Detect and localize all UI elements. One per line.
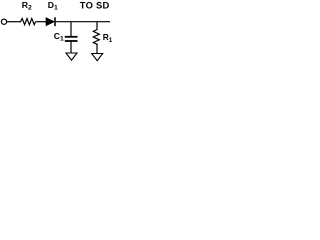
diode D1 anode triangle bbox=[46, 18, 54, 26]
resistor R1 bbox=[93, 30, 99, 45]
diode D1 cathode bar bbox=[54, 17, 56, 26]
terminal (input pin) bbox=[1, 19, 6, 24]
capacitor C1 top plate bbox=[65, 36, 78, 38]
wire C1 to ground bbox=[70, 42, 72, 54]
wire node to R1 bbox=[96, 22, 98, 30]
wire R1 to ground bbox=[96, 45, 98, 54]
ground under C1 bbox=[66, 53, 77, 60]
resistor R2 bbox=[21, 19, 36, 25]
capacitor C1 bottom plate bbox=[65, 40, 78, 42]
svg-text:C1: C1 bbox=[54, 31, 64, 43]
svg-text:R2: R2 bbox=[22, 0, 32, 12]
wire node to C1 bbox=[70, 22, 72, 37]
svg-text:D1: D1 bbox=[48, 0, 58, 12]
wire terminal to R2 bbox=[7, 21, 21, 23]
wire R2 to D1 bbox=[36, 21, 47, 23]
svg-text:R1: R1 bbox=[103, 32, 113, 44]
ground under R1 bbox=[92, 54, 103, 61]
wire D1 to output end (node with C1 and R1 taps) bbox=[56, 21, 110, 23]
svg-text:TO SD: TO SD bbox=[80, 0, 110, 10]
